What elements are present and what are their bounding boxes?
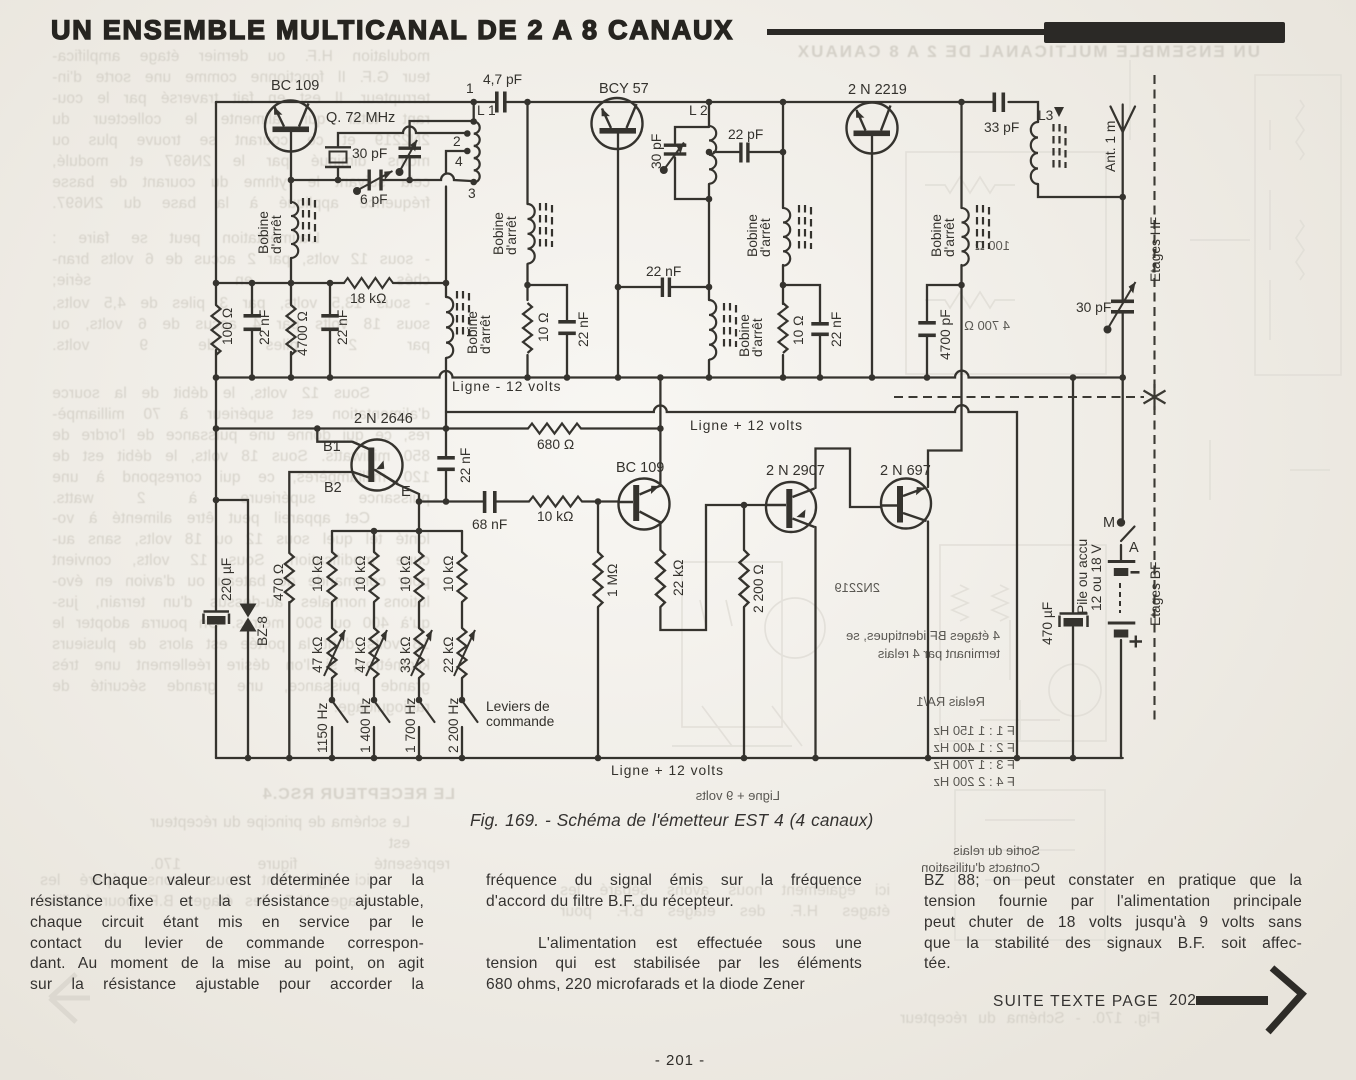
svg-text:10 Ω: 10 Ω <box>791 316 806 346</box>
svg-text:4700 Ω: 4700 Ω <box>295 311 310 356</box>
svg-text:100 Ω: 100 Ω <box>220 308 235 345</box>
svg-text:4 étages BF identiques, se: 4 étages BF identiques, se <box>846 628 1000 643</box>
svg-text:30 pF: 30 pF <box>1076 300 1111 315</box>
svg-text:B1: B1 <box>323 439 341 455</box>
svg-text:22 pF: 22 pF <box>728 127 763 142</box>
svg-text:30 pF: 30 pF <box>352 146 387 161</box>
svg-text:680 Ω: 680 Ω <box>537 437 574 452</box>
svg-text:d'arrêt: d'arrêt <box>504 216 519 255</box>
svg-text:Q. 72 MHz: Q. 72 MHz <box>326 110 395 126</box>
svg-text:F 4 : 2 200 Hz: F 4 : 2 200 Hz <box>933 774 1015 789</box>
svg-text:F 1 : 1 150 Hz: F 1 : 1 150 Hz <box>933 723 1015 738</box>
svg-text:Ligne + 12 volts: Ligne + 12 volts <box>690 418 803 433</box>
svg-text:2: 2 <box>453 134 461 149</box>
svg-text:30 pF: 30 pF <box>649 134 664 169</box>
svg-text:33 pF: 33 pF <box>984 120 1019 135</box>
svg-text:47 kΩ: 47 kΩ <box>310 637 325 673</box>
svg-text:d'arrêt: d'arrêt <box>758 218 773 257</box>
svg-text:22 kΩ: 22 kΩ <box>671 560 686 596</box>
svg-text:1 400 Hz: 1 400 Hz <box>358 698 373 753</box>
svg-text:47 kΩ: 47 kΩ <box>353 637 368 673</box>
svg-text:10 kΩ: 10 kΩ <box>398 556 413 592</box>
svg-text:470 µF: 470 µF <box>1040 602 1055 645</box>
svg-text:470 Ω: 470 Ω <box>271 564 286 601</box>
svg-text:M: M <box>1103 515 1115 531</box>
svg-text:22 nF: 22 nF <box>576 312 591 347</box>
svg-text:1: 1 <box>466 81 474 96</box>
svg-text:Ant. 1 m: Ant. 1 m <box>1103 121 1118 172</box>
svg-text:Pile ou accu: Pile ou accu <box>1075 539 1090 614</box>
svg-text:2 N 2907: 2 N 2907 <box>766 463 825 479</box>
svg-text:1 700 Hz: 1 700 Hz <box>403 698 418 753</box>
svg-text:4 700 Ω: 4 700 Ω <box>964 318 1010 333</box>
svg-text:1150 Hz: 1150 Hz <box>315 703 330 753</box>
svg-text:E: E <box>401 484 411 500</box>
svg-text:Leviers de: Leviers de <box>486 699 550 714</box>
svg-text:commande: commande <box>486 714 555 729</box>
svg-text:L 1: L 1 <box>477 103 496 118</box>
svg-text:22 nF: 22 nF <box>829 312 844 347</box>
svg-text:2 N 2219: 2 N 2219 <box>848 82 907 98</box>
svg-text:10 Ω: 10 Ω <box>536 313 551 343</box>
svg-text:L 2: L 2 <box>689 103 708 118</box>
svg-text:d'arrêt: d'arrêt <box>750 318 765 357</box>
svg-text:2 N 2646: 2 N 2646 <box>354 411 413 427</box>
svg-text:10 kΩ: 10 kΩ <box>353 556 368 592</box>
svg-text:F 3 : 1 700 Hz: F 3 : 1 700 Hz <box>933 757 1015 772</box>
svg-text:220 µF: 220 µF <box>219 558 234 601</box>
svg-text:100 Ω: 100 Ω <box>975 238 1010 253</box>
svg-text:6 pF: 6 pF <box>360 192 388 207</box>
svg-text:22 nF: 22 nF <box>458 448 473 483</box>
svg-text:10 kΩ: 10 kΩ <box>441 556 456 592</box>
svg-text:33 kΩ: 33 kΩ <box>398 637 413 673</box>
svg-text:Sortie du relais: Sortie du relais <box>953 843 1040 858</box>
svg-text:d'arrêt: d'arrêt <box>269 215 284 254</box>
svg-text:2N2219: 2N2219 <box>834 580 880 595</box>
svg-text:Ligne - 12 volts: Ligne - 12 volts <box>452 379 562 394</box>
svg-text:L3: L3 <box>1038 108 1054 123</box>
svg-text:Ligne + 12 volts: Ligne + 12 volts <box>611 763 724 778</box>
svg-text:4700 pF: 4700 pF <box>938 309 953 360</box>
svg-text:BC 109: BC 109 <box>271 78 319 94</box>
svg-text:4: 4 <box>455 154 463 169</box>
svg-text:18 kΩ: 18 kΩ <box>350 291 386 306</box>
svg-text:2 200 Hz: 2 200 Hz <box>446 698 461 753</box>
svg-text:12 ou 18 V: 12 ou 18 V <box>1089 543 1104 611</box>
svg-text:1 MΩ: 1 MΩ <box>605 564 620 597</box>
svg-text:d'arrêt: d'arrêt <box>942 218 957 257</box>
svg-text:BCY 57: BCY 57 <box>599 81 649 97</box>
svg-text:d'arrêt: d'arrêt <box>478 315 493 354</box>
svg-text:3: 3 <box>468 186 476 201</box>
svg-text:2 N 697: 2 N 697 <box>880 463 931 479</box>
svg-text:22 kΩ: 22 kΩ <box>441 637 456 673</box>
svg-text:Etages HF: Etages HF <box>1148 217 1163 282</box>
svg-text:2 200 Ω: 2 200 Ω <box>751 564 766 613</box>
svg-text:terminant par 4 relais: terminant par 4 relais <box>877 646 1000 661</box>
svg-text:68 nF: 68 nF <box>472 517 507 532</box>
svg-text:BZ-8: BZ-8 <box>255 616 270 646</box>
svg-text:BC 109: BC 109 <box>616 460 664 476</box>
svg-text:Ligne + 9 volts: Ligne + 9 volts <box>695 788 780 803</box>
svg-text:22 nF: 22 nF <box>646 264 681 279</box>
svg-text:22 nF: 22 nF <box>335 310 350 345</box>
svg-text:10 kΩ: 10 kΩ <box>310 556 325 592</box>
svg-text:4,7 pF: 4,7 pF <box>483 72 522 87</box>
svg-text:B2: B2 <box>324 480 342 496</box>
svg-text:Relais RA/1: Relais RA/1 <box>916 694 985 709</box>
svg-text:A: A <box>1129 540 1139 556</box>
svg-text:22 nF: 22 nF <box>257 310 272 345</box>
svg-text:Etages BF: Etages BF <box>1148 562 1163 626</box>
svg-text:F 2 : 1 400 Hz: F 2 : 1 400 Hz <box>933 740 1015 755</box>
svg-text:10 kΩ: 10 kΩ <box>537 509 573 524</box>
